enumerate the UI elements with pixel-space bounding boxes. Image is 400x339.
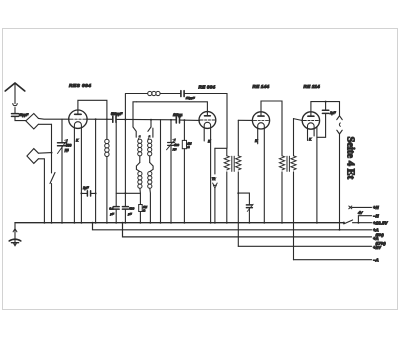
ground bus	[15, 222, 344, 224]
plug P2 (earth jack)	[27, 149, 39, 164]
svg-text:+A: +A	[373, 228, 379, 233]
ground symbol	[9, 223, 21, 246]
+A 60v line	[93, 223, 372, 230]
svg-text:0.1: 0.1	[109, 206, 114, 210]
svg-text:500: 500	[129, 206, 134, 210]
tube U2 legs	[203, 127, 205, 141]
svg-text:K: K	[76, 139, 79, 143]
tube U4 RE114	[302, 112, 319, 129]
wire P1 lower lead	[38, 123, 51, 125]
capacitor 2uF	[81, 191, 95, 196]
svg-text:µµ: µµ	[173, 147, 177, 151]
trimmer capacitor 400uu	[167, 120, 176, 223]
svg-text:Seite 4 Et: Seite 4 Et	[345, 137, 356, 180]
-A line	[294, 259, 372, 261]
output jack J1	[337, 102, 342, 230]
svg-text:+2V: +2V	[373, 245, 382, 250]
terminal -H	[358, 216, 371, 223]
capacitor C8	[246, 204, 253, 223]
svg-text:+H: +H	[373, 205, 380, 210]
vertical from grid line with bypass branch	[95, 119, 97, 223]
+A 170v line	[123, 223, 372, 237]
tube U2 RE084	[199, 112, 216, 129]
svg-text:−A: −A	[373, 257, 379, 262]
tube U3 legs	[257, 128, 259, 144]
svg-text:Tk: Tk	[212, 177, 216, 181]
capacitor C6 500uF	[122, 207, 128, 223]
svg-text:µµ: µµ	[65, 148, 69, 152]
coil L3a with arrow	[138, 135, 142, 162]
svg-text:RE 144: RE 144	[253, 84, 270, 89]
svg-text:100µµ: 100µµ	[173, 113, 182, 117]
coil L4a	[138, 172, 142, 223]
switch S1 on plug line	[50, 124, 55, 222]
svg-text:2µF: 2µF	[82, 186, 90, 190]
svg-text:60µµF: 60µµF	[19, 113, 29, 117]
tube U3 grid wire	[238, 119, 252, 121]
capacitor C5 0.1uF	[113, 207, 119, 223]
wire P1 to tube1 grid	[38, 117, 69, 120]
branch to coupling cap	[237, 192, 239, 194]
svg-text:RE 114: RE 114	[304, 84, 321, 89]
tube U4 legs	[307, 128, 309, 141]
svg-text:500: 500	[66, 143, 72, 147]
vertical x=116.2 grid cap to C5	[115, 122, 117, 206]
grid wire U1 right	[106, 118, 108, 120]
capacitor 15uuF	[181, 91, 184, 97]
wire P2 upper lead	[38, 152, 51, 155]
transformer T1	[224, 120, 241, 246]
svg-text:500µµF: 500µµF	[111, 112, 123, 116]
band filter BF1 collars top	[133, 127, 153, 137]
svg-text:+18.5V: +18.5V	[373, 221, 389, 226]
antenna	[5, 83, 25, 113]
tube U1 filament legs	[73, 127, 75, 222]
band filter BF2 collars	[136, 163, 153, 172]
svg-text:RES 094: RES 094	[69, 83, 91, 89]
capacitor C9 2uF	[317, 102, 329, 138]
svg-text:µF: µF	[110, 212, 114, 216]
U2 anode wire to BF1	[137, 102, 208, 113]
switch S2 on bus	[343, 222, 345, 224]
coil L4b	[148, 172, 152, 223]
wire P2 lower lead	[38, 159, 44, 223]
top line from x=125.8 with coil L2 and cap 15uuF	[126, 93, 148, 95]
svg-text:−H: −H	[373, 214, 380, 219]
resistor R1 box 1M	[182, 120, 186, 223]
wire U1 anode to coil L1	[78, 100, 107, 139]
coil L3b with arrow	[148, 135, 152, 162]
svg-text:µF: µF	[128, 212, 132, 216]
coil L2 horizontal	[148, 91, 160, 95]
svg-text:Ω: Ω	[187, 145, 190, 149]
svg-text:2µF: 2µF	[329, 111, 337, 115]
vertical x=125.4 top line to C6	[124, 94, 126, 207]
trimmer capacitor 500uu	[58, 119, 68, 223]
capacitor antenna 60uuF	[12, 114, 26, 121]
svg-text:15µµF: 15µµF	[186, 96, 196, 100]
capacitor 500uuF grid	[113, 116, 116, 122]
svg-text:K: K	[309, 137, 312, 141]
terminal +H with x mark	[349, 206, 372, 209]
tube U1 RES094	[69, 110, 87, 128]
svg-text:4V: 4V	[358, 211, 363, 215]
interstage lead: Tk component	[213, 148, 227, 222]
resistor R2 box on bottle drop	[139, 205, 143, 212]
cap rail	[116, 192, 140, 194]
tube U3 RE144	[252, 112, 269, 129]
svg-text:RE 084: RE 084	[199, 85, 216, 90]
transformer T2	[279, 119, 296, 260]
svg-text:Ω: Ω	[143, 209, 146, 213]
plug P1 (antenna jack)	[26, 114, 39, 130]
tube U4 grid wire	[294, 119, 303, 121]
U4 anode wire	[311, 102, 339, 112]
+2V line	[238, 245, 371, 247]
junction dots on bus	[43, 222, 340, 231]
vertical x=160.5	[160, 120, 162, 223]
tube U4 cathode long leg	[316, 127, 318, 223]
coil L1	[105, 139, 109, 223]
svg-text:+A: +A	[373, 236, 379, 241]
U3 anode wire	[261, 101, 282, 156]
capacitor 100uu	[176, 117, 179, 123]
band filter BF1 feeds	[133, 102, 137, 127]
